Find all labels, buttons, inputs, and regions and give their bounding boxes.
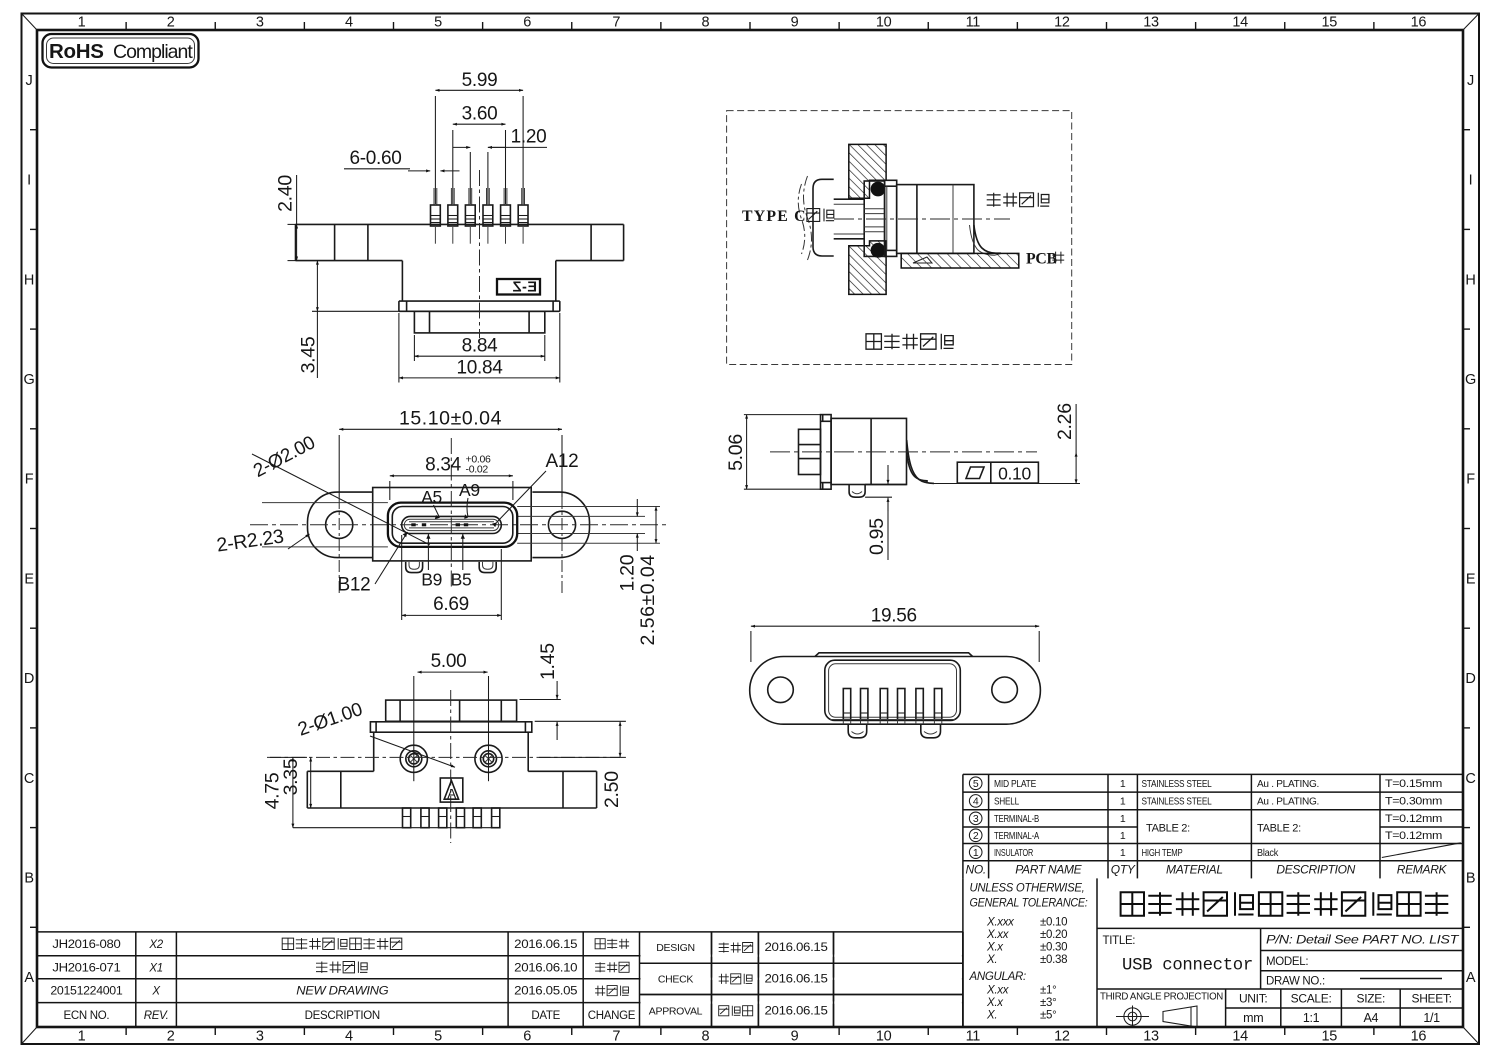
svg-text:±0.30: ±0.30	[1040, 942, 1067, 954]
svg-text:X1: X1	[148, 962, 162, 974]
svg-text:X.xx: X.xx	[986, 985, 1010, 997]
svg-text:1.45: 1.45	[537, 643, 559, 680]
svg-text:X.x: X.x	[986, 942, 1004, 954]
svg-text:8: 8	[702, 15, 710, 31]
svg-text:I: I	[27, 173, 31, 189]
svg-text:1: 1	[973, 847, 979, 859]
svg-text:E: E	[24, 571, 34, 587]
svg-text:B9: B9	[421, 570, 442, 590]
svg-text:A12: A12	[546, 451, 579, 472]
svg-text:I: I	[1469, 173, 1473, 189]
svg-text:2.56±0.04: 2.56±0.04	[637, 554, 659, 645]
svg-text:TABLE 2:: TABLE 2:	[1257, 823, 1301, 835]
svg-text:T=0.12mm: T=0.12mm	[1385, 830, 1442, 842]
svg-text:16: 16	[1411, 1029, 1427, 1045]
svg-text:REMARK: REMARK	[1397, 863, 1448, 877]
svg-text:3.45: 3.45	[298, 336, 320, 373]
svg-text:T=0.30mm: T=0.30mm	[1385, 796, 1442, 808]
svg-text:UNLESS OTHERWISE,: UNLESS OTHERWISE,	[970, 883, 1085, 895]
svg-text:MODEL:: MODEL:	[1266, 956, 1308, 968]
svg-text:TITLE:: TITLE:	[1103, 935, 1136, 947]
svg-text:6-0.60: 6-0.60	[349, 148, 401, 169]
svg-text:DATE: DATE	[531, 1010, 560, 1022]
svg-text:7: 7	[612, 1029, 620, 1045]
svg-text:1:1: 1:1	[1303, 1011, 1320, 1025]
svg-text:3: 3	[256, 1029, 264, 1045]
svg-text:B12: B12	[338, 575, 371, 596]
svg-text:2: 2	[167, 1029, 175, 1045]
svg-text:CHANGE: CHANGE	[588, 1010, 636, 1022]
svg-text:SIZE:: SIZE:	[1357, 992, 1386, 1006]
svg-text:12: 12	[1054, 15, 1070, 31]
svg-text:9: 9	[791, 1029, 799, 1045]
svg-text:TERMINAL-B: TERMINAL-B	[994, 813, 1039, 825]
svg-text:HIGH TEMP: HIGH TEMP	[1142, 847, 1183, 859]
svg-text:Black: Black	[1257, 847, 1279, 859]
svg-text:19.56: 19.56	[871, 606, 917, 627]
svg-text:MATERIAL: MATERIAL	[1166, 863, 1223, 877]
svg-text:5.00: 5.00	[431, 651, 467, 672]
svg-text:2016.06.15: 2016.06.15	[514, 939, 577, 951]
svg-text:1/1: 1/1	[1423, 1011, 1440, 1025]
svg-text:2016.06.15: 2016.06.15	[765, 973, 828, 985]
svg-text:T=0.12mm: T=0.12mm	[1385, 813, 1442, 825]
svg-text:Compliant: Compliant	[113, 41, 193, 63]
svg-text:DESCRIPTION: DESCRIPTION	[305, 1010, 380, 1022]
svg-text:E-Z: E-Z	[512, 280, 537, 296]
svg-text:11: 11	[966, 1029, 981, 1045]
svg-text:6: 6	[523, 1029, 531, 1045]
svg-text:6.69: 6.69	[433, 594, 469, 615]
svg-text:REV.: REV.	[144, 1010, 169, 1022]
svg-text:F: F	[1466, 472, 1475, 488]
svg-text:10: 10	[876, 15, 892, 31]
svg-text:±0.38: ±0.38	[1040, 954, 1067, 966]
svg-text:B: B	[24, 870, 33, 886]
svg-text:13: 13	[1143, 1029, 1159, 1045]
svg-text:11: 11	[966, 15, 981, 31]
svg-text:PCB: PCB	[1026, 251, 1057, 268]
svg-text:A9: A9	[459, 480, 480, 500]
svg-text:-0.02: -0.02	[466, 464, 489, 476]
svg-text:0.95: 0.95	[866, 518, 888, 555]
svg-text:DESIGN: DESIGN	[656, 942, 694, 954]
svg-text:5.99: 5.99	[462, 70, 498, 91]
svg-text:X.x: X.x	[986, 997, 1004, 1009]
svg-text:SHELL: SHELL	[994, 796, 1019, 808]
svg-text:STAINLESS STEEL: STAINLESS STEEL	[1142, 796, 1212, 808]
svg-text:GENERAL TOLERANCE:: GENERAL TOLERANCE:	[970, 898, 1088, 910]
svg-text:A5: A5	[421, 487, 442, 507]
svg-text:2.40: 2.40	[275, 175, 297, 212]
svg-text:PART NAME: PART NAME	[1015, 863, 1082, 877]
svg-text:2016.06.15: 2016.06.15	[765, 1005, 828, 1017]
svg-text:J: J	[26, 73, 33, 89]
svg-text:RoHS: RoHS	[49, 40, 104, 63]
svg-text:JH2016-071: JH2016-071	[52, 962, 120, 974]
svg-text:X.xx: X.xx	[986, 929, 1010, 941]
svg-text:±0.20: ±0.20	[1040, 929, 1067, 941]
svg-text:STAINLESS STEEL: STAINLESS STEEL	[1142, 778, 1212, 790]
svg-text:5.06: 5.06	[725, 434, 747, 471]
svg-text:SHEET:: SHEET:	[1411, 992, 1451, 1006]
svg-text:5: 5	[973, 778, 979, 790]
svg-text:14: 14	[1232, 15, 1248, 31]
svg-text:CHECK: CHECK	[658, 973, 694, 985]
svg-text:4.75: 4.75	[262, 772, 284, 809]
svg-text:8.84: 8.84	[462, 336, 499, 357]
svg-text:10: 10	[876, 1029, 892, 1045]
svg-text:H: H	[24, 272, 34, 288]
svg-text:TERMINAL-A: TERMINAL-A	[994, 830, 1039, 842]
svg-text:T=0.15mm: T=0.15mm	[1385, 778, 1442, 790]
svg-text:20151224001: 20151224001	[50, 986, 122, 998]
svg-text:X.: X.	[986, 1010, 997, 1022]
svg-text:1: 1	[1120, 847, 1126, 859]
svg-text:14: 14	[1232, 1029, 1248, 1045]
svg-text:A4: A4	[1363, 1011, 1378, 1025]
svg-text:4: 4	[345, 15, 353, 31]
svg-text:2016.05.05: 2016.05.05	[514, 986, 577, 998]
svg-text:D: D	[1465, 671, 1475, 687]
svg-text:6: 6	[523, 15, 531, 31]
svg-text:G: G	[1465, 372, 1476, 388]
svg-text:5: 5	[434, 15, 442, 31]
svg-text:1: 1	[78, 15, 86, 31]
svg-text:±1°: ±1°	[1040, 985, 1056, 997]
svg-text:C: C	[24, 771, 34, 787]
svg-text:TYPE C: TYPE C	[742, 208, 807, 225]
svg-text:2: 2	[973, 830, 979, 842]
svg-text:4: 4	[973, 796, 979, 808]
svg-text:3: 3	[973, 813, 979, 825]
svg-text:P/N: Detail See PART NO. LIST: P/N: Detail See PART NO. LIST	[1266, 933, 1459, 947]
svg-text:ECN NO.: ECN NO.	[63, 1010, 109, 1022]
svg-text:B5: B5	[451, 570, 472, 590]
svg-text:0.10: 0.10	[998, 464, 1031, 484]
svg-text:J: J	[1467, 73, 1474, 89]
svg-text:MID PLATE: MID PLATE	[994, 778, 1036, 790]
svg-text:Au . PLATING.: Au . PLATING.	[1257, 778, 1319, 790]
svg-text:G: G	[24, 372, 35, 388]
svg-text:±0.10: ±0.10	[1040, 917, 1067, 929]
svg-text:INSULATOR: INSULATOR	[994, 847, 1033, 859]
svg-text:DESCRIPTION: DESCRIPTION	[1276, 863, 1355, 877]
svg-text:THIRD ANGLE PROJECTION: THIRD ANGLE PROJECTION	[1100, 992, 1223, 1003]
svg-text:E: E	[1466, 571, 1476, 587]
svg-text:1: 1	[1120, 813, 1126, 825]
svg-text:X.: X.	[986, 954, 997, 966]
svg-text:H: H	[1465, 272, 1475, 288]
svg-text:TABLE 2:: TABLE 2:	[1146, 823, 1190, 835]
svg-text:9: 9	[791, 15, 799, 31]
svg-text:4: 4	[345, 1029, 353, 1045]
svg-text:±3°: ±3°	[1040, 997, 1056, 1009]
svg-text:5: 5	[434, 1029, 442, 1045]
svg-text:1.20: 1.20	[511, 127, 547, 148]
svg-text:F: F	[25, 472, 34, 488]
svg-text:JH2016-080: JH2016-080	[52, 939, 120, 951]
svg-text:A: A	[1466, 970, 1476, 986]
svg-text:1: 1	[1120, 796, 1126, 808]
svg-text:mm: mm	[1243, 1011, 1263, 1025]
svg-text:UNIT:: UNIT:	[1239, 992, 1268, 1006]
svg-text:8.34: 8.34	[425, 455, 462, 476]
svg-text:1: 1	[78, 1029, 86, 1045]
svg-text:±5°: ±5°	[1040, 1010, 1056, 1022]
svg-text:D: D	[24, 671, 34, 687]
svg-text:B: B	[1466, 870, 1475, 886]
svg-text:X2: X2	[148, 939, 163, 951]
svg-text:DRAW NO.:: DRAW NO.:	[1266, 976, 1325, 988]
svg-text:8: 8	[702, 1029, 710, 1045]
svg-text:10.84: 10.84	[456, 358, 503, 379]
svg-text:USB connector: USB connector	[1122, 957, 1253, 976]
svg-text:2: 2	[167, 15, 175, 31]
svg-text:15: 15	[1322, 1029, 1338, 1045]
svg-text:15: 15	[1322, 15, 1338, 31]
svg-text:NEW DRAWING: NEW DRAWING	[296, 986, 388, 998]
svg-text:1: 1	[1120, 778, 1126, 790]
svg-text:7: 7	[612, 15, 620, 31]
svg-text:3: 3	[256, 15, 264, 31]
svg-text:ANGULAR:: ANGULAR:	[969, 971, 1026, 983]
svg-text:12: 12	[1054, 1029, 1070, 1045]
svg-text:NO.: NO.	[965, 863, 985, 877]
svg-text:A: A	[24, 970, 34, 986]
svg-text:2.50: 2.50	[601, 771, 623, 808]
svg-text:QTY: QTY	[1111, 863, 1136, 877]
svg-text:Au . PLATING.: Au . PLATING.	[1257, 796, 1319, 808]
svg-text:3.60: 3.60	[462, 104, 498, 125]
svg-text:A: A	[447, 787, 456, 802]
svg-text:X.xxx: X.xxx	[986, 917, 1015, 929]
svg-text:2016.06.15: 2016.06.15	[765, 942, 828, 954]
svg-text:SCALE:: SCALE:	[1291, 992, 1332, 1006]
svg-text:APPROVAL: APPROVAL	[649, 1005, 703, 1017]
svg-text:16: 16	[1411, 15, 1427, 31]
svg-text:1: 1	[1120, 830, 1126, 842]
svg-text:2.26: 2.26	[1054, 403, 1076, 440]
svg-text:13: 13	[1143, 15, 1159, 31]
svg-text:1.20: 1.20	[617, 554, 639, 591]
svg-text:2016.06.10: 2016.06.10	[514, 962, 577, 974]
svg-text:C: C	[1465, 771, 1475, 787]
svg-text:15.10±0.04: 15.10±0.04	[399, 408, 502, 430]
